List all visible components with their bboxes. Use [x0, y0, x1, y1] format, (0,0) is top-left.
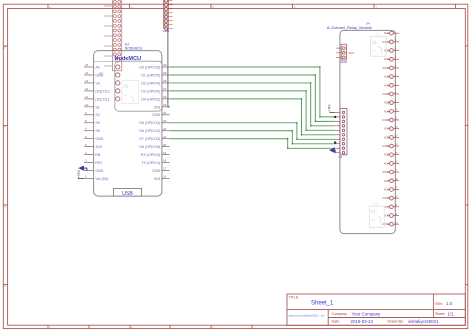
svg-text:D7 (GPIO13): D7 (GPIO13)	[139, 137, 160, 141]
svg-text:3V3: 3V3	[154, 177, 160, 181]
svg-text:NO2: NO2	[384, 58, 390, 61]
svg-text:15: 15	[85, 63, 89, 67]
svg-text:8-Channel_Relay_Module: 8-Channel_Relay_Module	[327, 25, 372, 30]
relay module U4 designator	[327, 22, 372, 30]
svg-text:NC2: NC2	[384, 76, 389, 79]
svg-text:S0: S0	[95, 121, 99, 125]
svg-text:NC3: NC3	[384, 102, 389, 105]
svg-text:TITLE:: TITLE:	[289, 296, 300, 300]
relay K8 glyph	[370, 202, 385, 228]
svg-text:2019-03-24: 2019-03-24	[351, 319, 374, 324]
svg-text:VU: VU	[95, 81, 100, 85]
svg-text:23: 23	[163, 119, 167, 123]
svg-text:D0 (GPIO16): D0 (GPIO16)	[139, 65, 160, 69]
wire D5 to relay	[170, 123, 336, 140]
svg-text:25: 25	[163, 103, 167, 107]
svg-text:EN: EN	[95, 153, 100, 157]
svg-text:GND: GND	[163, 29, 171, 33]
title block	[287, 294, 465, 325]
wire D2 to relay	[170, 83, 336, 126]
svg-text:RST: RST	[95, 161, 103, 165]
+5V flag (U2 Vin)	[76, 169, 84, 178]
svg-text:K1: K1	[376, 32, 380, 36]
svg-text:29: 29	[163, 71, 167, 75]
svg-text:COM2: COM2	[382, 67, 390, 70]
svg-text:NC4: NC4	[384, 128, 389, 131]
NodeMCU U2 body	[94, 51, 162, 197]
U2 module glyph	[122, 76, 139, 103]
wire D7 to relay	[170, 139, 336, 149]
svg-text:30: 30	[163, 63, 167, 67]
svg-text:26: 26	[163, 95, 167, 99]
svg-text:B: B	[4, 46, 6, 50]
svg-text:TX (GPIO1): TX (GPIO1)	[141, 161, 160, 165]
svg-text:D8 (GPIO15): D8 (GPIO15)	[139, 145, 160, 149]
wire D1 to relay	[170, 75, 336, 121]
junction at J1 pin2	[334, 116, 336, 118]
svg-text:COM5: COM5	[382, 145, 390, 148]
wire D3 to relay	[170, 91, 336, 130]
svg-text:NC7: NC7	[384, 206, 389, 209]
svg-text:GND: GND	[152, 169, 160, 173]
svg-text:K8: K8	[375, 202, 379, 206]
svg-text:vishaliyer20021: vishaliyer20021	[408, 319, 439, 324]
svg-text:P4: P4	[339, 155, 343, 159]
svg-text:GND: GND	[95, 137, 103, 141]
wire D0 to relay	[170, 67, 336, 117]
USB connector box	[114, 189, 142, 197]
svg-text:VCC: VCC	[348, 51, 354, 55]
svg-text:easyeda.com/vishaliyer20021 ·: easyeda.com/vishaliyer20021 · sch	[288, 315, 325, 318]
+5V flag (relay VCC)	[327, 104, 336, 112]
U2 title separator	[94, 60, 162, 62]
svg-text:D5 (GPIO14): D5 (GPIO14)	[139, 121, 160, 125]
junction at J1 pin8	[334, 141, 336, 143]
frame zone numbers	[4, 5, 378, 330]
ground arrow (U2 GND)	[78, 166, 87, 171]
svg-text:19: 19	[163, 151, 167, 155]
svg-text:Vin (5V): Vin (5V)	[95, 177, 108, 181]
svg-text:14: 14	[85, 71, 89, 75]
svg-text:NC6: NC6	[384, 180, 389, 183]
svg-text:Your Company: Your Company	[352, 311, 382, 316]
svg-text:11: 11	[85, 95, 88, 99]
svg-text:USB: USB	[122, 191, 133, 197]
svg-text:13: 13	[85, 79, 89, 83]
svg-text:16: 16	[163, 175, 167, 179]
U4 relay output pins	[382, 31, 399, 227]
wire P2 to U2 pin 25 (3V3)	[168, 29, 170, 107]
U2 left pins (15..1)	[84, 63, 110, 181]
svg-text:12: 12	[85, 87, 89, 91]
U2 inner module outline	[115, 61, 162, 111]
svg-text:D2 (GPIO4): D2 (GPIO4)	[141, 81, 160, 85]
svg-text:Company:: Company:	[332, 312, 348, 316]
svg-text:RX (GPIO3): RX (GPIO3)	[141, 153, 160, 157]
relay K1 glyph	[371, 32, 387, 56]
svg-text:GND: GND	[152, 113, 160, 117]
svg-text:3V3: 3V3	[154, 105, 160, 109]
svg-text:D1 (GPIO5): D1 (GPIO5)	[141, 73, 160, 77]
svg-text:20: 20	[163, 143, 167, 147]
svg-text:22: 22	[163, 127, 167, 131]
svg-text:GND: GND	[95, 169, 103, 173]
power select connector J2	[336, 44, 346, 60]
svg-text:E: E	[4, 284, 6, 288]
wire D6 to relay	[170, 131, 336, 144]
svg-text:10: 10	[85, 103, 89, 107]
svg-text:COM4: COM4	[382, 119, 390, 122]
svg-text:COM6: COM6	[382, 171, 390, 174]
svg-text:+5V: +5V	[327, 104, 332, 112]
svg-text:C: C	[4, 125, 6, 129]
svg-text:NO6: NO6	[384, 162, 390, 165]
svg-text:NO1: NO1	[384, 32, 390, 35]
svg-text:Date:: Date:	[332, 320, 340, 324]
svg-text:NC5: NC5	[384, 154, 389, 157]
svg-text:D3 (GPIO0): D3 (GPIO0)	[141, 89, 160, 93]
U2 socket holes	[116, 58, 120, 101]
svg-text:NO8: NO8	[384, 214, 390, 217]
svg-text:Drawn By:: Drawn By:	[388, 320, 404, 324]
svg-text:(S2) D11: (S2) D11	[95, 97, 109, 101]
pin header P2	[164, 0, 173, 30]
svg-text:P1: P1	[100, 72, 104, 76]
svg-text:NO5: NO5	[384, 136, 390, 139]
svg-text:1.0: 1.0	[446, 301, 453, 306]
relay input connector J1	[335, 109, 347, 155]
svg-text:NodeMCU: NodeMCU	[114, 56, 141, 62]
svg-text:24: 24	[163, 111, 167, 115]
op-amp U2 designator labels	[125, 43, 143, 51]
svg-text:COM8: COM8	[382, 223, 390, 226]
svg-text:GND: GND	[340, 60, 348, 64]
svg-text:D4 (GPIO2): D4 (GPIO2)	[141, 97, 160, 101]
U2 right pins (30..16)	[139, 63, 169, 181]
svg-text:COM3: COM3	[382, 93, 390, 96]
svg-text:17: 17	[163, 167, 167, 171]
svg-text:21: 21	[163, 135, 167, 139]
wire D4 to relay	[170, 99, 336, 135]
pin header P1	[104, 0, 122, 71]
svg-text:D: D	[4, 205, 6, 209]
ground arrow (relay GND)	[329, 147, 335, 153]
svg-text:27: 27	[163, 87, 167, 91]
svg-text:Sheet:: Sheet:	[435, 312, 445, 316]
U4 body	[340, 30, 395, 233]
svg-text:REV:: REV:	[435, 302, 443, 306]
svg-text:COM7: COM7	[382, 197, 390, 200]
svg-text:K: K	[127, 76, 129, 80]
svg-text:+5V: +5V	[76, 169, 81, 177]
svg-text:18: 18	[163, 159, 167, 163]
svg-text:28: 28	[163, 79, 167, 83]
svg-text:NC1: NC1	[384, 50, 389, 53]
svg-text:D6 (GPIO12): D6 (GPIO12)	[139, 129, 160, 133]
svg-text:1/1: 1/1	[448, 311, 455, 316]
svg-text:NO7: NO7	[384, 188, 390, 191]
svg-text:NODEMCU: NODEMCU	[125, 46, 143, 50]
svg-text:S1: S1	[95, 105, 99, 109]
svg-text:3V3: 3V3	[95, 145, 101, 149]
svg-text:Sheet_1: Sheet_1	[311, 301, 334, 307]
svg-text:A0: A0	[95, 65, 99, 69]
svg-text:SK: SK	[95, 129, 100, 133]
svg-text:(S3) D12: (S3) D12	[95, 89, 109, 93]
title block texts	[289, 296, 446, 324]
svg-text:NO4: NO4	[384, 110, 390, 113]
svg-text:SC: SC	[95, 113, 100, 117]
svg-text:NO3: NO3	[384, 84, 390, 87]
